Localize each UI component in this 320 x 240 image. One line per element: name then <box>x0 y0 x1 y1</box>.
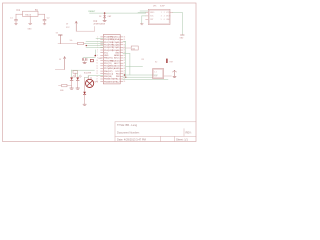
ground under regulator <box>29 23 32 24</box>
supply arrow 5V left <box>59 35 61 43</box>
svg-text:16: 16 <box>96 76 98 78</box>
svg-text:3 4: 3 4 <box>154 75 156 77</box>
svg-text:Sheet: 1/1: Sheet: 1/1 <box>176 138 188 142</box>
svg-text:1: 1 <box>161 12 162 14</box>
svg-text:1 2: 1 2 <box>154 72 156 74</box>
svg-text:PC3(A3): PC3(A3) <box>112 41 120 44</box>
ground under C1 <box>15 24 18 25</box>
supply arrow AVCC <box>75 21 77 31</box>
svg-text:13: 13 <box>96 68 98 70</box>
svg-text:14: 14 <box>96 71 98 73</box>
ground under LED2 <box>76 88 79 89</box>
svg-text:RST: RST <box>150 19 153 21</box>
junction node <box>86 45 87 46</box>
buzzer SP1 <box>86 79 94 87</box>
ground under LED1 <box>70 88 73 89</box>
svg-text:11: 11 <box>96 63 98 65</box>
svg-text:12: 12 <box>96 65 98 67</box>
left nets into IC <box>58 43 78 45</box>
svg-text:23: 23 <box>124 71 126 73</box>
svg-text:ADC6: ADC6 <box>114 65 120 68</box>
svg-text:2: 2 <box>164 12 165 14</box>
small component above LED2 <box>73 71 78 74</box>
resistor left of LEDs <box>62 84 67 86</box>
LED1 <box>71 70 73 77</box>
ground under caps <box>83 63 86 64</box>
capacitor C1 <box>15 20 18 21</box>
diode under buzzer to ground <box>84 77 86 91</box>
svg-text:26: 26 <box>124 63 126 65</box>
svg-text:AGND: AGND <box>114 67 120 70</box>
svg-text:29: 29 <box>124 55 126 57</box>
svg-text:XTAL2: XTAL2 <box>114 80 121 83</box>
svg-text:36: 36 <box>124 36 126 38</box>
right vertical nets <box>123 42 143 78</box>
ground at end of ICSP right wire <box>181 34 185 36</box>
supply arrow mid <box>64 57 66 70</box>
ground under diode D2 <box>83 104 86 105</box>
svg-text:PC4(SDA): PC4(SDA) <box>110 38 120 41</box>
svg-text:D3: D3 <box>99 16 101 18</box>
ground under D1 <box>103 20 106 21</box>
svg-text:24: 24 <box>124 68 126 70</box>
svg-text:35: 35 <box>124 39 126 41</box>
svg-text:31: 31 <box>124 50 126 52</box>
svg-text:BUZZER: BUZZER <box>84 72 92 74</box>
svg-text:3: 3 <box>161 16 162 18</box>
LED2 <box>77 73 79 77</box>
ICSP connector box <box>148 9 170 24</box>
wire LED2 cathode <box>77 81 79 88</box>
ground under C2 <box>43 24 46 25</box>
svg-text:PC1(A1): PC1(A1) <box>112 46 120 49</box>
diode D1 to ground <box>104 13 106 20</box>
svg-text:IC2: IC2 <box>94 20 98 23</box>
wire LED1 cathode <box>71 81 73 88</box>
svg-text:IC1: IC1 <box>17 9 21 12</box>
svg-text:SP1: SP1 <box>95 82 98 84</box>
svg-text:10k: 10k <box>132 48 135 50</box>
title block outline <box>115 122 196 142</box>
load caps <box>82 58 87 60</box>
title block text <box>117 123 192 141</box>
switch box <box>153 69 164 79</box>
svg-text:17: 17 <box>96 78 98 80</box>
ground under transistor <box>173 76 176 77</box>
svg-text:PD6(AIN0): PD6(AIN0) <box>104 65 114 68</box>
svg-text:PD7(AIN1): PD7(AIN1) <box>104 67 114 70</box>
svg-text:33: 33 <box>124 44 126 46</box>
capacitor C2 <box>43 20 46 21</box>
svg-text:34: 34 <box>124 42 126 44</box>
svg-text:5: 5 <box>161 19 162 21</box>
svg-text:AREF: AREF <box>114 54 120 57</box>
green wires into ICSP <box>138 11 182 35</box>
svg-text:4: 4 <box>164 16 165 18</box>
svg-text:S2: S2 <box>155 62 157 64</box>
svg-text:REV:: REV: <box>186 131 192 135</box>
svg-text:AVCC: AVCC <box>114 57 120 60</box>
junction node <box>125 77 126 78</box>
green nets <box>85 38 103 47</box>
svg-text:TITLE: BB - Lung: TITLE: BB - Lung <box>117 123 138 127</box>
svg-text:ATMEGA328: ATMEGA328 <box>94 23 107 26</box>
resistor right <box>131 46 138 50</box>
svg-text:16M: 16M <box>98 58 102 60</box>
IC2 box <box>103 35 120 84</box>
svg-text:MOSI: MOSI <box>166 16 171 18</box>
svg-text:Date: 4/29/2013 3:47 PM: Date: 4/29/2013 3:47 PM <box>117 138 146 142</box>
svg-text:19: 19 <box>124 81 126 83</box>
regulator IC1 box <box>23 11 39 16</box>
svg-text:10k: 10k <box>70 40 73 42</box>
junction node <box>124 74 125 75</box>
crystal Q1 <box>94 50 96 56</box>
IC2 pin labels right <box>110 37 120 84</box>
svg-text:PC0(A0): PC0(A0) <box>112 49 120 52</box>
svg-text:78L05: 78L05 <box>25 14 32 16</box>
ICSP left pin stubs <box>146 13 173 20</box>
svg-text:27: 27 <box>124 60 126 62</box>
IC2 pins <box>101 37 123 82</box>
IC2 pin labels left <box>104 37 115 84</box>
svg-text:Document Number:: Document Number: <box>117 131 140 135</box>
regulator wires <box>16 14 45 23</box>
svg-text:10: 10 <box>96 60 98 62</box>
svg-text:ICSP: ICSP <box>160 6 165 8</box>
svg-text:30: 30 <box>124 52 126 54</box>
svg-text:XTAL1: XTAL1 <box>114 78 121 81</box>
svg-text:28: 28 <box>124 57 126 59</box>
svg-text:25: 25 <box>124 65 126 67</box>
bottom nets <box>72 70 168 79</box>
ICSP pin labels <box>150 12 171 21</box>
svg-text:ADC7: ADC7 <box>114 62 120 65</box>
regulator IC1 name <box>17 9 39 12</box>
svg-text:15: 15 <box>96 73 98 75</box>
ground under ICSP <box>140 24 143 25</box>
reset net (green) <box>90 12 146 14</box>
svg-text:RESET: RESET <box>89 11 96 13</box>
frame border <box>3 3 197 142</box>
svg-text:6: 6 <box>164 19 165 21</box>
resistor R1 <box>78 42 84 44</box>
transistor right of switch <box>164 75 172 77</box>
svg-text:GND: GND <box>28 29 33 31</box>
svg-text:PC2(A2): PC2(A2) <box>112 43 120 46</box>
IC2 pin numbers <box>96 36 125 83</box>
junction <box>104 12 106 14</box>
